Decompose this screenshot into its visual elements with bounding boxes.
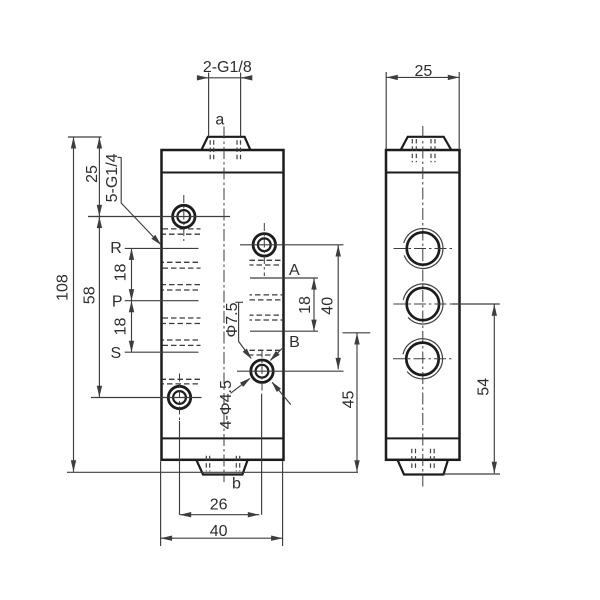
svg-text:2-G1/8: 2-G1/8: [203, 59, 252, 76]
svg-text:25: 25: [415, 63, 433, 80]
svg-text:18: 18: [112, 264, 129, 282]
svg-text:R: R: [110, 240, 122, 257]
svg-text:26: 26: [210, 497, 228, 514]
svg-text:B: B: [289, 334, 300, 351]
svg-text:54: 54: [476, 378, 493, 396]
svg-text:25: 25: [84, 165, 101, 183]
svg-text:b: b: [232, 476, 241, 493]
svg-text:4-Φ4.5: 4-Φ4.5: [218, 380, 235, 429]
svg-text:45: 45: [341, 391, 358, 409]
svg-text:18: 18: [297, 296, 314, 314]
svg-text:40: 40: [210, 523, 228, 540]
svg-text:P: P: [112, 294, 123, 311]
svg-text:18: 18: [112, 318, 129, 336]
svg-text:108: 108: [54, 274, 71, 301]
svg-text:S: S: [110, 345, 121, 362]
svg-text:58: 58: [82, 286, 99, 304]
svg-text:a: a: [215, 112, 224, 129]
svg-text:40: 40: [319, 297, 336, 315]
svg-text:A: A: [289, 262, 300, 279]
svg-text:5-G1/4: 5-G1/4: [104, 153, 121, 202]
